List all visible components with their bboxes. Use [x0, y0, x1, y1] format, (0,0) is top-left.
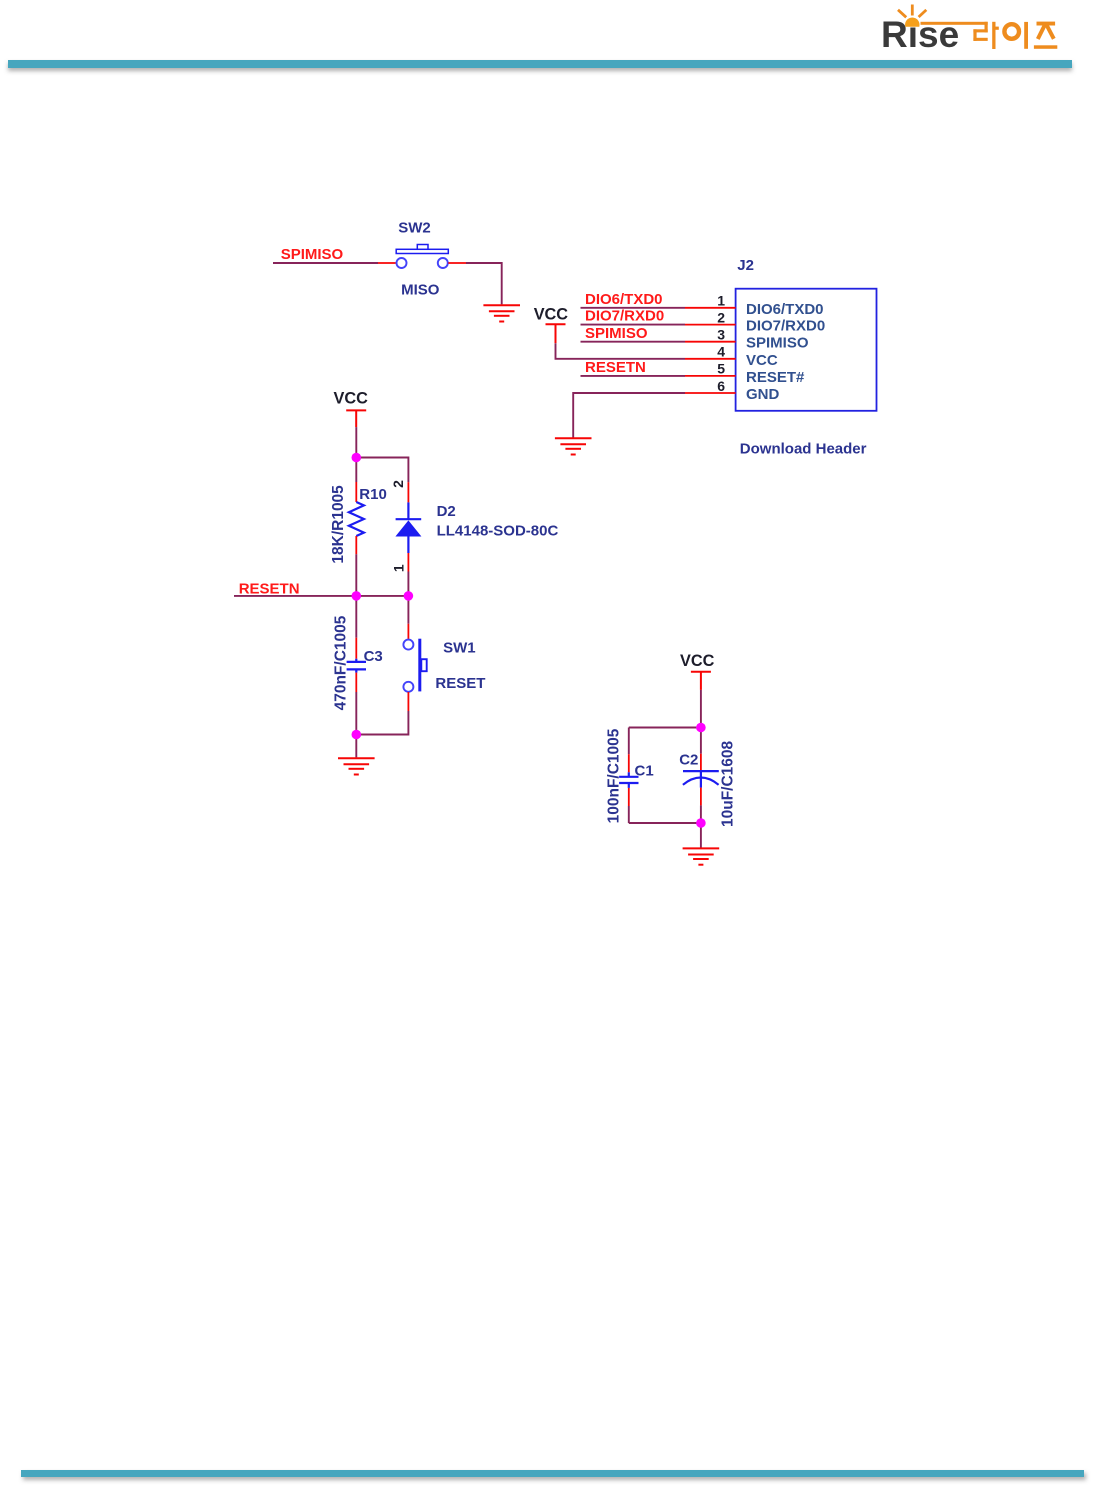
connector J2 — [736, 289, 877, 411]
svg-text:RESET: RESET — [435, 675, 485, 692]
wire to ground (C3) — [355, 735, 357, 758]
svg-text:2: 2 — [717, 309, 725, 325]
svg-text:4: 4 — [717, 344, 725, 360]
orange line + hangul ra — [921, 22, 999, 49]
wire pin 6 to ground — [573, 393, 685, 438]
wire RESETN — [234, 595, 408, 597]
svg-text:SPIMISO: SPIMISO — [281, 246, 344, 263]
svg-text:VCC: VCC — [680, 652, 715, 670]
resistor R10 — [349, 458, 364, 555]
junction GND node — [352, 730, 362, 740]
wire DIO7/RXD0 — [581, 324, 686, 326]
svg-text:5: 5 — [717, 361, 725, 377]
junction RESETN-R10 — [352, 591, 362, 601]
svg-text:MISO: MISO — [401, 282, 440, 299]
junction VCC node (C1 C2) — [696, 723, 706, 733]
svg-text:18K/R1005: 18K/R1005 — [330, 485, 347, 564]
wire to ground (C1 C2) — [700, 823, 702, 848]
svg-text:DIO7/RXD0: DIO7/RXD0 — [585, 308, 664, 325]
diode D2 — [395, 482, 421, 571]
capacitor C2 — [683, 728, 719, 824]
svg-text:SPIMISO: SPIMISO — [746, 335, 809, 352]
pin 6 stub — [685, 392, 736, 394]
svg-text:470nF/C1005: 470nF/C1005 — [332, 615, 349, 710]
svg-text:SPIMISO: SPIMISO — [585, 325, 648, 342]
svg-text:Download Header: Download Header — [740, 440, 867, 457]
logo Rise — [881, 16, 959, 53]
junction VCC node — [352, 453, 362, 463]
svg-text:2: 2 — [390, 480, 406, 488]
wire VCC down — [355, 427, 357, 457]
pin stub SW2 pin1 — [378, 262, 396, 264]
svg-text:J2: J2 — [737, 257, 754, 274]
svg-text:SW2: SW2 — [398, 219, 431, 236]
svg-text:RESETN: RESETN — [585, 359, 646, 376]
switch SW1 — [356, 596, 426, 735]
wire bottom C1 C2 — [629, 822, 701, 824]
svg-text:R10: R10 — [359, 486, 387, 503]
svg-text:DIO6/TXD0: DIO6/TXD0 — [746, 301, 824, 318]
ground (C1 C2) — [683, 848, 720, 864]
hangul jeu — [1037, 22, 1056, 26]
logo art: sun, rays, korean — [0, 0, 1093, 70]
switch SW2 — [396, 245, 448, 269]
hangul i — [1004, 24, 1019, 39]
svg-text:C3: C3 — [364, 648, 383, 665]
top teal rule — [8, 60, 1072, 68]
junction RESETN-D2 — [404, 591, 414, 601]
pin 1 stub — [685, 307, 736, 309]
wire SW2 to ground — [466, 263, 502, 304]
wire VCC node to D2 branch — [356, 458, 408, 483]
svg-text:DIO6/TXD0: DIO6/TXD0 — [585, 291, 663, 308]
svg-text:C1: C1 — [635, 762, 654, 779]
pin stub SW2 pin2 — [448, 262, 466, 264]
svg-text:D2: D2 — [437, 503, 456, 520]
pin 5 stub — [685, 375, 736, 377]
svg-text:100nF/C1005: 100nF/C1005 — [606, 728, 623, 823]
wire SPIMISO to SW2 — [273, 262, 378, 264]
svg-text:1: 1 — [717, 293, 725, 309]
wire D2 to RESETN — [407, 572, 409, 597]
wire RESETN (J2) — [581, 375, 686, 377]
wire SPIMISO (J2) — [581, 341, 686, 343]
wire VCC to pin 4 — [556, 343, 686, 359]
ground (C3/SW1) — [338, 758, 375, 774]
ground (J2) — [555, 438, 592, 454]
svg-text:VCC: VCC — [534, 306, 569, 324]
svg-text:GND: GND — [746, 386, 780, 403]
svg-text:1: 1 — [390, 564, 406, 572]
svg-text:C2: C2 — [679, 752, 698, 769]
pin 4 stub — [685, 358, 736, 360]
svg-text:6: 6 — [717, 378, 725, 394]
junction GND node (C1 C2) — [696, 818, 706, 828]
svg-text:RESET#: RESET# — [746, 369, 805, 386]
wire top C1 C2 — [629, 727, 701, 729]
svg-text:LL4148-SOD-80C: LL4148-SOD-80C — [437, 522, 559, 539]
wire DIO6/TXD0 — [581, 307, 686, 309]
svg-text:DIO7/RXD0: DIO7/RXD0 — [746, 318, 825, 335]
ground (SW2) — [483, 305, 520, 321]
pin 3 stub — [685, 341, 736, 343]
svg-text:SW1: SW1 — [443, 639, 476, 656]
pin 2 stub — [685, 324, 736, 326]
bottom teal rule — [21, 1470, 1084, 1477]
capacitor C1 — [619, 728, 638, 824]
svg-text:10uF/C1608: 10uF/C1608 — [719, 740, 736, 827]
sun disc — [905, 18, 920, 27]
svg-text:VCC: VCC — [746, 352, 778, 369]
svg-text:3: 3 — [717, 327, 725, 343]
sun rays — [911, 5, 914, 16]
capacitor C3 — [347, 596, 366, 735]
wire R10 to RESETN — [355, 554, 357, 596]
wire VCC down (C2) — [700, 690, 702, 728]
svg-text:VCC: VCC — [334, 390, 369, 408]
